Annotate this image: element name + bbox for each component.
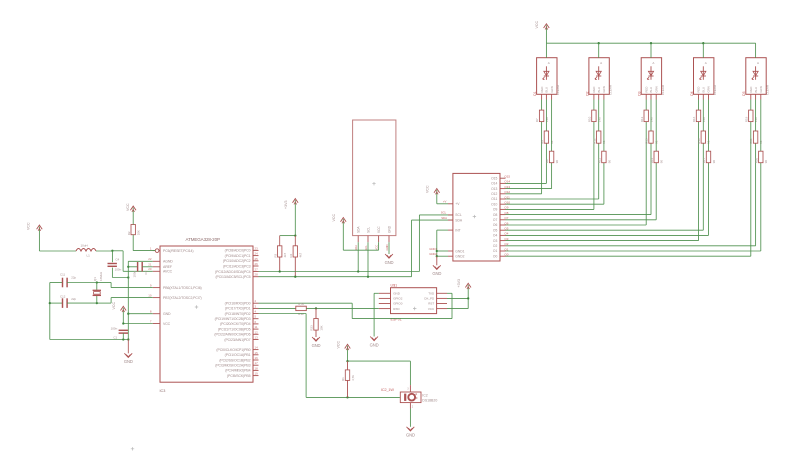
- resistor R13 140: [640, 100, 654, 123]
- svg-text:BLU: BLU: [649, 87, 653, 92]
- capacitor C1 100n: [111, 326, 128, 339]
- wire XTAL1 jog: [96, 281, 153, 287]
- svg-text:VCC: VCC: [375, 245, 379, 251]
- svg-text:CLEAR: CLEAR: [661, 84, 665, 95]
- svg-text:R19: R19: [744, 116, 748, 122]
- display SCL wire: [367, 242, 369, 277]
- VCC arrow DS18B20: [336, 341, 350, 362]
- svg-text:INT: INT: [455, 228, 460, 232]
- VCC supply arrow top-left: [27, 222, 43, 251]
- svg-text:4,7K: 4,7K: [351, 375, 355, 381]
- svg-text:140: 140: [702, 117, 706, 122]
- svg-text:R2: R2: [127, 231, 131, 235]
- svg-text:16: 16: [255, 356, 259, 360]
- crystal ground loop: [49, 283, 129, 341]
- svg-text:(PCI10/ADC2)PC2: (PCI10/ADC2)PC2: [223, 259, 251, 263]
- svg-text:TXD: TXD: [428, 292, 435, 296]
- svg-text:CLEAR: CLEAR: [609, 84, 613, 95]
- svg-text:140: 140: [754, 117, 758, 122]
- svg-text:SDA: SDA: [455, 218, 463, 222]
- svg-text:PB6(XTAL1/TOSC1,PCI6): PB6(XTAL1/TOSC1,PCI6): [163, 286, 202, 290]
- svg-text:4,7K: 4,7K: [298, 302, 304, 306]
- svg-text:(PCI3/MOSI/OC2A)PB3: (PCI3/MOSI/OC2A)PB3: [215, 364, 250, 368]
- resistor R15 91: [645, 100, 659, 144]
- svg-text:VCC: VCC: [112, 302, 116, 310]
- svg-text:O9: O9: [493, 208, 498, 212]
- svg-text:10uH: 10uH: [81, 244, 88, 248]
- svg-text:10: 10: [148, 293, 152, 297]
- svg-text:O13: O13: [491, 187, 497, 191]
- display SDA wire: [357, 242, 359, 271]
- ground driver: [432, 265, 441, 276]
- svg-text:6: 6: [255, 320, 257, 324]
- ATmega left pins: [148, 246, 201, 325]
- svg-text:(PCI21/T1/OC0B)PD5: (PCI21/T1/OC0B)PD5: [218, 327, 251, 331]
- svg-text:O1: O1: [493, 249, 498, 253]
- wires driver outputs to LED resistors: [506, 122, 761, 257]
- svg-text:SCL: SCL: [441, 211, 447, 215]
- resistor R23 10K: [310, 308, 324, 337]
- svg-text:25: 25: [255, 257, 259, 261]
- svg-text:(PCI9/ADC1)PC1: (PCI9/ADC1)PC1: [225, 254, 251, 258]
- svg-text:AGND: AGND: [163, 260, 173, 264]
- resistor R1 4,7K pullup: [341, 361, 355, 397]
- svg-text:VCC: VCC: [428, 307, 435, 311]
- svg-text:R3: R3: [273, 253, 277, 257]
- svg-text:8: 8: [150, 310, 152, 314]
- svg-text:IC3: IC3: [160, 389, 166, 393]
- svg-text:SDA: SDA: [354, 245, 358, 251]
- net label GND2: [429, 252, 437, 256]
- LED D3 CLEAR RGB: [638, 43, 665, 99]
- svg-text:U$1: U$1: [391, 284, 398, 288]
- inductor L1 10uH: [76, 244, 96, 258]
- ATmega right pins: [214, 246, 258, 378]
- svg-text:RST: RST: [428, 302, 434, 306]
- svg-text:R12: R12: [592, 138, 596, 144]
- svg-text:R21: R21: [749, 138, 753, 144]
- wire L1 to AVCC node: [96, 250, 114, 252]
- anode bus wire: [546, 42, 755, 44]
- svg-text:VCC: VCC: [336, 341, 340, 349]
- svg-text:AREF: AREF: [163, 265, 172, 269]
- svg-text:CH_PD: CH_PD: [424, 297, 435, 301]
- ESP VCC CH_PD wires: [447, 297, 469, 308]
- svg-text:VCC: VCC: [332, 214, 336, 222]
- svg-text:+V: +V: [455, 202, 460, 206]
- svg-text:SDA: SDA: [357, 226, 361, 233]
- resistor R7 140: [535, 100, 549, 123]
- svg-text:14: 14: [255, 346, 259, 350]
- svg-text:R15: R15: [645, 138, 649, 144]
- LED D2 CLEAR RGB: [585, 43, 612, 99]
- svg-text:R18: R18: [697, 138, 701, 144]
- wire SCL net: [259, 220, 453, 278]
- svg-text:GRN: GRN: [707, 86, 711, 92]
- svg-text:O15: O15: [504, 175, 510, 179]
- svg-text:RXD: RXD: [393, 307, 400, 311]
- svg-text:(PCI19/INT1/OC2B)PD3: (PCI19/INT1/OC2B)PD3: [215, 317, 251, 321]
- svg-text:R1: R1: [341, 377, 345, 381]
- svg-text:R9: R9: [540, 140, 544, 144]
- svg-text:90: 90: [607, 160, 611, 164]
- svg-text:O4: O4: [493, 234, 498, 238]
- resistor R20 90: [754, 100, 768, 164]
- svg-text:GND: GND: [385, 260, 394, 265]
- svg-text:12: 12: [255, 330, 259, 334]
- wire PD2 onewire: [259, 314, 400, 399]
- svg-text:R17: R17: [702, 158, 706, 164]
- resistor R17 90: [702, 100, 716, 164]
- svg-text:(PCI13/ADC5/SCL)PC5: (PCI13/ADC5/SCL)PC5: [215, 275, 250, 279]
- svg-text:A: A: [757, 61, 759, 65]
- svg-text:3: 3: [255, 304, 257, 308]
- svg-text:26: 26: [255, 262, 259, 266]
- svg-text:+V: +V: [443, 199, 447, 203]
- svg-text:+3V3: +3V3: [457, 279, 461, 288]
- svg-text:R4: R4: [289, 253, 293, 257]
- net label SDA at driver: [441, 216, 447, 220]
- svg-text:21: 21: [148, 263, 152, 267]
- svg-text:BLU: BLU: [754, 87, 758, 92]
- svg-text:RED: RED: [592, 87, 596, 93]
- svg-text:CLEAR: CLEAR: [765, 84, 769, 95]
- resistor R19 140: [744, 100, 758, 123]
- VCC arrow display: [332, 214, 346, 251]
- svg-text:22p: 22p: [71, 297, 76, 301]
- svg-text:100n: 100n: [132, 270, 136, 277]
- svg-text:GND2: GND2: [455, 255, 464, 259]
- svg-text:C11: C11: [60, 273, 65, 277]
- pullup top wires: [280, 234, 297, 245]
- svg-text:9: 9: [150, 283, 152, 287]
- svg-text:C2: C2: [144, 270, 148, 274]
- svg-text:D1: D1: [533, 91, 537, 95]
- svg-text:GRN: GRN: [602, 86, 606, 92]
- svg-text:O8: O8: [493, 213, 498, 217]
- svg-text:(PCI1/OC1A)PB1: (PCI1/OC1A)PB1: [225, 353, 251, 357]
- wire SDA net: [259, 215, 453, 273]
- svg-text:140: 140: [597, 117, 601, 122]
- svg-text:17: 17: [255, 361, 259, 365]
- net label +V at driver: [443, 199, 447, 203]
- wire XTAL2 jog: [96, 298, 153, 305]
- wire VCC to L1: [39, 250, 76, 252]
- LED D1 CLEAR RGB: [533, 43, 560, 99]
- svg-text:VCC: VCC: [163, 322, 171, 326]
- svg-text:GPIO2: GPIO2: [393, 297, 403, 301]
- capacitor C2 100n on AREF: [128, 262, 152, 278]
- svg-text:RED: RED: [749, 87, 753, 93]
- net label SCL at driver: [441, 211, 447, 215]
- svg-text:GRN: GRN: [550, 86, 554, 92]
- svg-text:GPIO0: GPIO0: [393, 302, 403, 306]
- pullup bottom leads: [280, 257, 296, 277]
- svg-text:R20: R20: [754, 158, 758, 164]
- LED D4 CLEAR RGB: [690, 43, 717, 99]
- svg-text:GND1: GND1: [455, 249, 464, 253]
- svg-text:(PCI20/XCK/T0)PD4: (PCI20/XCK/T0)PD4: [220, 322, 251, 326]
- svg-text:O12: O12: [491, 192, 497, 196]
- ground DS18B20: [406, 427, 415, 438]
- svg-text:BLU: BLU: [545, 87, 549, 92]
- svg-text:SDA: SDA: [441, 216, 447, 220]
- svg-text:O10: O10: [491, 202, 497, 206]
- svg-text:10K: 10K: [319, 325, 323, 330]
- svg-text:ATMEGA328-20P: ATMEGA328-20P: [186, 237, 220, 242]
- svg-text:A: A: [600, 61, 602, 65]
- svg-text:(PCI18/INT0)PD2: (PCI18/INT0)PD2: [225, 312, 251, 316]
- wire AVCC node jog to AVCC pin: [112, 251, 152, 271]
- svg-text:D3: D3: [638, 91, 642, 95]
- svg-text:(PCI5/SCK)PB5: (PCI5/SCK)PB5: [227, 374, 251, 378]
- svg-text:O3: O3: [493, 239, 498, 243]
- svg-text:20: 20: [148, 267, 152, 271]
- svg-text:10K: 10K: [137, 230, 141, 235]
- IC2 DS18B20 sensor: [381, 388, 437, 409]
- svg-text:O0: O0: [493, 254, 498, 258]
- svg-text:D5: D5: [742, 91, 746, 95]
- svg-text:22: 22: [148, 257, 152, 261]
- driver +V wire: [437, 203, 448, 205]
- wire PD0 to ESP TXD: [259, 293, 453, 318]
- svg-text:27: 27: [255, 268, 259, 272]
- svg-text:RED: RED: [644, 87, 648, 93]
- svg-text:(PCI0/CLKO/ICP1)PB0: (PCI0/CLKO/ICP1)PB0: [216, 348, 250, 352]
- svg-text:F: F: [416, 396, 418, 400]
- ground ESP: [370, 337, 379, 348]
- svg-text:18: 18: [255, 366, 259, 370]
- svg-text:140: 140: [650, 117, 654, 122]
- svg-text:3: 3: [407, 388, 409, 391]
- svg-text:(PCI2/SS/OC1B)PB2: (PCI2/SS/OC1B)PB2: [219, 358, 250, 362]
- +3V3 arrow: [284, 199, 298, 236]
- svg-text:GND: GND: [163, 312, 171, 316]
- svg-text:RED: RED: [540, 87, 544, 93]
- resistor R10 140: [588, 100, 602, 123]
- svg-text:4: 4: [255, 310, 257, 314]
- svg-text:100n: 100n: [115, 268, 122, 272]
- svg-text:90: 90: [660, 160, 664, 164]
- ground display: [385, 254, 394, 265]
- svg-text:CLEAR: CLEAR: [556, 84, 560, 95]
- svg-text:R10: R10: [588, 116, 592, 122]
- svg-text:R11: R11: [598, 158, 602, 163]
- svg-text:R14: R14: [650, 158, 654, 164]
- display VCC wire: [343, 242, 378, 250]
- svg-text:R8: R8: [545, 159, 549, 163]
- svg-text:O11: O11: [491, 197, 497, 201]
- svg-text:VCC: VCC: [27, 222, 31, 230]
- VCC arrow driver: [425, 185, 439, 204]
- svg-text:7: 7: [150, 319, 152, 323]
- svg-text:(PCI17/TXD)PD1: (PCI17/TXD)PD1: [225, 307, 251, 311]
- svg-text:R16: R16: [692, 116, 696, 122]
- wire GND pin: [128, 313, 152, 315]
- resistor R18 91: [697, 100, 711, 144]
- svg-text:A: A: [652, 61, 654, 65]
- svg-text:R12: R12: [298, 312, 304, 316]
- svg-text:4k7: 4k7: [299, 252, 303, 257]
- VCC arrow at VCC pin: [112, 302, 126, 324]
- svg-text:(PCI11/ADC3)PC3: (PCI11/ADC3)PC3: [223, 264, 251, 268]
- ground R23: [312, 337, 321, 348]
- capacitor C11 22p: [50, 273, 97, 288]
- svg-text:IC2: IC2: [422, 393, 428, 397]
- resistor R11 90: [598, 100, 612, 164]
- AGND rail: [127, 261, 153, 340]
- resistor R4 4k7: [289, 246, 303, 258]
- resistor R9 91: [540, 100, 554, 144]
- VCC arrow LED bus: [535, 21, 549, 44]
- capacitor C4 100n: [108, 251, 130, 279]
- net label GND1: [429, 247, 437, 251]
- svg-text:PC6(/RESET,PCI14): PC6(/RESET,PCI14): [163, 249, 193, 253]
- svg-text:RED: RED: [697, 87, 701, 93]
- svg-text:VCC: VCC: [535, 21, 539, 29]
- resistor R21 91: [749, 100, 763, 144]
- svg-text:O7: O7: [493, 218, 498, 222]
- LED driver IC1 box: [448, 173, 510, 261]
- svg-text:24: 24: [255, 252, 259, 256]
- svg-text:(PCI16/RXD)PD0: (PCI16/RXD)PD0: [225, 302, 251, 306]
- svg-text:BLU: BLU: [702, 87, 706, 92]
- svg-text:+3V3: +3V3: [284, 201, 288, 210]
- wire VCC pin: [122, 322, 153, 324]
- svg-text:5: 5: [255, 315, 257, 319]
- resistor R12: [296, 302, 307, 316]
- wire R12 to ESP RXD: [306, 307, 379, 309]
- svg-text:90: 90: [764, 160, 768, 164]
- resistor R14 90: [650, 100, 664, 164]
- svg-text:11: 11: [255, 325, 258, 329]
- svg-text:R23: R23: [310, 325, 314, 331]
- svg-text:BLU: BLU: [597, 87, 601, 92]
- svg-text:15: 15: [255, 351, 259, 355]
- svg-text:GND: GND: [393, 292, 401, 296]
- svg-text:GRN: GRN: [654, 86, 658, 92]
- svg-text:13: 13: [255, 336, 259, 340]
- svg-text:(PCI12/ADC4/SDA)PC4: (PCI12/ADC4/SDA)PC4: [215, 270, 251, 274]
- capacitor C12 22p: [50, 294, 97, 308]
- svg-text:A: A: [705, 61, 707, 65]
- +3V3 arrow ESP: [457, 279, 471, 309]
- resistor R2 10K reset pullup: [127, 225, 141, 236]
- ground GND left block: [124, 340, 133, 365]
- wire PD1: [259, 307, 296, 309]
- svg-text:C4: C4: [115, 258, 119, 262]
- svg-text:GND: GND: [432, 271, 441, 276]
- wire VCC node DS18B20: [346, 360, 410, 392]
- svg-text:D2: D2: [585, 91, 589, 95]
- DS18B20 gnd wire: [409, 403, 411, 427]
- sheet origin cross: [131, 447, 134, 450]
- svg-text:VCC: VCC: [377, 226, 381, 233]
- resistor R12 91: [592, 100, 606, 144]
- resistor R8 90: [545, 100, 559, 164]
- display GND wire: [388, 242, 390, 254]
- svg-text:23: 23: [255, 246, 259, 250]
- svg-text:(PCI8/ADC0)PC0: (PCI8/ADC0)PC0: [225, 249, 251, 253]
- svg-text:(PCI22/AIN0/OC0A)PD6: (PCI22/AIN0/OC0A)PD6: [214, 333, 250, 337]
- display module JP1 box: [353, 120, 396, 251]
- reset wire: [133, 235, 155, 251]
- svg-text:16MHz: 16MHz: [99, 271, 103, 281]
- svg-text:O15: O15: [491, 176, 497, 180]
- svg-text:SCL: SCL: [455, 213, 462, 217]
- svg-text:GND: GND: [312, 343, 321, 348]
- svg-text:28: 28: [255, 273, 259, 277]
- svg-text:PB7(XTAL2/TOSC2,PCI7): PB7(XTAL2/TOSC2,PCI7): [163, 296, 202, 300]
- svg-text:VCC: VCC: [126, 203, 130, 211]
- resistor R16 140: [692, 100, 706, 123]
- svg-text:SCL: SCL: [366, 227, 370, 233]
- svg-text:SCL: SCL: [364, 245, 368, 251]
- VCC arrow above R2: [126, 203, 136, 224]
- LED D5 CLEAR RGB: [742, 43, 769, 99]
- svg-text:C12: C12: [60, 294, 66, 298]
- ESP01 module U$1: [379, 284, 447, 322]
- svg-text:GND2: GND2: [429, 252, 437, 256]
- svg-text:GND: GND: [387, 225, 391, 233]
- svg-text:90: 90: [555, 160, 559, 164]
- svg-text:19: 19: [255, 372, 259, 376]
- IC IC3 ATMEGA328-20P box: [160, 237, 254, 393]
- crystal Q1 16MHz: [93, 271, 103, 303]
- svg-text:1: 1: [150, 246, 152, 250]
- svg-text:O14: O14: [491, 182, 497, 186]
- svg-text:DS18B20: DS18B20: [422, 399, 437, 403]
- svg-text:L1: L1: [87, 254, 91, 258]
- svg-text:140: 140: [545, 117, 549, 122]
- driver INT-GND wire: [436, 230, 448, 265]
- svg-text:GND1: GND1: [429, 247, 437, 251]
- svg-text:R7: R7: [535, 118, 539, 122]
- svg-text:AVCC: AVCC: [163, 270, 173, 274]
- svg-text:O2: O2: [493, 244, 498, 248]
- svg-text:Q1: Q1: [93, 277, 97, 281]
- svg-text:C1: C1: [113, 336, 117, 340]
- svg-text:CLEAR: CLEAR: [713, 84, 717, 95]
- ESP GND wire: [374, 293, 379, 336]
- svg-text:D4: D4: [690, 91, 694, 95]
- svg-text:O5: O5: [493, 228, 498, 232]
- svg-text:GND: GND: [385, 244, 389, 250]
- svg-text:GND: GND: [124, 359, 133, 364]
- svg-text:90: 90: [712, 160, 716, 164]
- svg-text:(PCI4/MISO)PB4: (PCI4/MISO)PB4: [225, 369, 250, 373]
- svg-text:VCC: VCC: [425, 185, 429, 193]
- resistor R3 4k7: [273, 246, 287, 258]
- svg-text:100n: 100n: [111, 326, 118, 330]
- svg-text:GND: GND: [406, 433, 415, 438]
- svg-text:22p: 22p: [71, 275, 76, 279]
- svg-text:GRN: GRN: [759, 86, 763, 92]
- svg-text:2: 2: [412, 406, 414, 409]
- svg-text:R13: R13: [640, 116, 644, 122]
- svg-text:IC2_1W: IC2_1W: [381, 388, 394, 392]
- svg-text:2: 2: [255, 299, 257, 303]
- svg-text:4k7: 4k7: [283, 252, 287, 257]
- svg-text:(PCI23/AIN1)PD7: (PCI23/AIN1)PD7: [224, 338, 250, 342]
- svg-text:GND: GND: [370, 342, 379, 347]
- svg-text:O6: O6: [493, 223, 498, 227]
- svg-text:A: A: [548, 61, 550, 65]
